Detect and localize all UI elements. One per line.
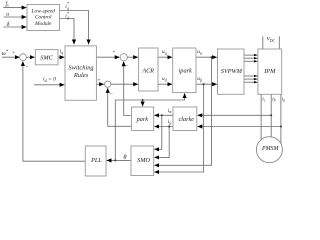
svg-text:ACR: ACR (141, 67, 154, 74)
svg-text:Low-speed: Low-speed (31, 8, 56, 14)
svg-text:ic: ic (262, 98, 265, 103)
svg-text:+: + (97, 77, 100, 83)
svg-text:SMC: SMC (40, 55, 53, 62)
svg-text:ib: ib (272, 98, 275, 103)
svg-text:park: park (136, 116, 149, 123)
svg-text:clarke: clarke (179, 116, 195, 123)
svg-text:Rules: Rules (73, 72, 89, 79)
svg-text:Module: Module (34, 21, 52, 27)
svg-text:−: − (25, 65, 29, 71)
svg-text:ia: ia (282, 98, 285, 103)
svg-text:ipark: ipark (179, 67, 192, 74)
svg-text:uβ: uβ (197, 76, 202, 82)
svg-text:SVPWM: SVPWM (221, 68, 243, 75)
svg-text:Switching: Switching (68, 65, 94, 72)
svg-text:θ: θ (123, 154, 126, 161)
svg-text:IPM: IPM (263, 68, 276, 75)
svg-text:+: + (12, 50, 15, 56)
svg-text:Control: Control (35, 15, 52, 21)
svg-text:SMO: SMO (137, 157, 150, 164)
svg-text:−: − (125, 64, 129, 70)
svg-text:iβ: iβ (168, 119, 172, 125)
svg-text:PLL: PLL (90, 157, 102, 164)
svg-text:id = 0: id = 0 (43, 77, 56, 83)
svg-text:u: u (6, 12, 9, 18)
svg-text:+: + (112, 50, 115, 56)
svg-text:PMSM: PMSM (261, 146, 279, 152)
svg-text:δ: δ (7, 22, 10, 28)
